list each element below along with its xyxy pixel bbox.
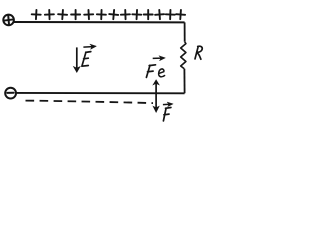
negative charge dashed line below bottom plate bbox=[26, 101, 154, 104]
label R bbox=[195, 46, 202, 59]
field arrow E (downward) bbox=[74, 47, 81, 72]
label E (with vector over-arrow) bbox=[82, 44, 97, 66]
wire: top plate bbox=[14, 21, 185, 23]
resistor R (zigzag) bbox=[181, 42, 186, 69]
wire: bottom plate bbox=[16, 92, 185, 94]
terminal T2 (bottom plate, circle-minus) bbox=[5, 88, 16, 99]
wire: right side, bottom segment bbox=[183, 69, 185, 93]
force arrow F (downward, weight) bbox=[153, 93, 159, 112]
label F (with vector over-arrow) bbox=[163, 102, 173, 121]
label Fe (with vector over-arrow) bbox=[146, 56, 165, 78]
positive charge marks (+ row) above top plate bbox=[31, 10, 185, 20]
force arrow Fe (upward, on negative charge) bbox=[153, 80, 159, 93]
wire: right side, top segment bbox=[184, 22, 186, 41]
terminal T1 (top plate, circle-plus) bbox=[3, 15, 14, 26]
